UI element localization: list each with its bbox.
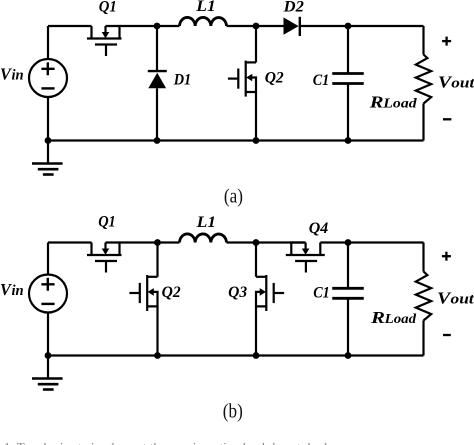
svg-text:Q4: Q4 [309, 220, 329, 237]
svg-text:Q2: Q2 [162, 284, 181, 301]
svg-text:D2: D2 [283, 0, 304, 16]
svg-text:(b): (b) [223, 401, 243, 423]
svg-text:in: in [12, 68, 24, 84]
svg-text:(a): (a) [224, 186, 243, 208]
svg-text:R: R [369, 92, 384, 111]
svg-text:Q1: Q1 [98, 214, 116, 231]
svg-text:L1: L1 [196, 214, 217, 231]
svg-text:out: out [451, 292, 474, 308]
svg-text:R: R [370, 308, 385, 327]
svg-text:Load: Load [382, 95, 417, 110]
svg-text:1. Topologies to implement: 1. Topologies to implement the non-inver… [4, 440, 333, 445]
svg-text:Q2: Q2 [265, 70, 284, 87]
svg-text:Q1: Q1 [99, 0, 117, 15]
svg-text:out: out [451, 75, 474, 91]
svg-text:C1: C1 [313, 72, 330, 89]
svg-text:in: in [12, 283, 24, 299]
svg-text:Q3: Q3 [228, 284, 247, 301]
svg-text:D1: D1 [173, 72, 191, 89]
svg-text:L1: L1 [195, 0, 216, 15]
svg-text:C1: C1 [313, 285, 330, 302]
svg-text:Load: Load [383, 311, 416, 326]
